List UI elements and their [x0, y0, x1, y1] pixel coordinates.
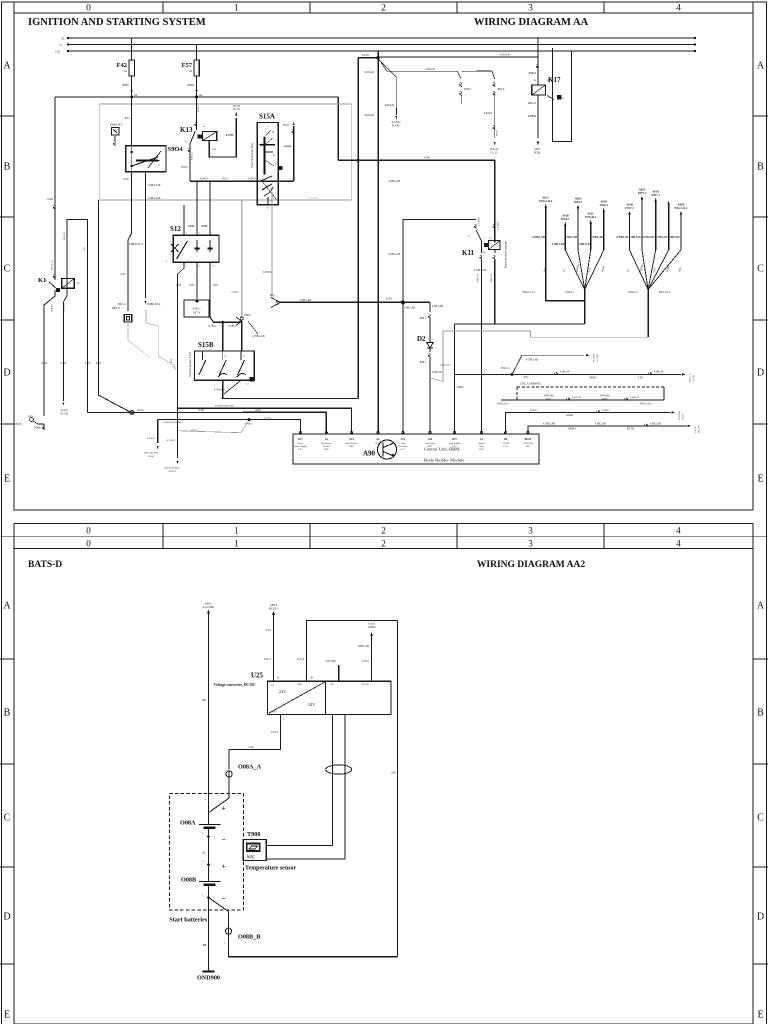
page2 arrow AA1E — [370, 632, 373, 636]
svg-text:3: 3 — [528, 539, 533, 549]
svg-text:3: 3 — [528, 4, 533, 14]
svg-text:0-DSESE0B GB03: 0-DSESE0B GB03 — [163, 421, 183, 424]
svg-text:6.0V: 6.0V — [120, 273, 126, 276]
svg-text:4.70B.LAB: 4.70B.LAB — [590, 236, 603, 239]
svg-text:D: D — [757, 368, 764, 379]
svg-text:4.70Gn0B: 4.70Gn0B — [214, 389, 225, 392]
svg-text:K17: K17 — [548, 76, 561, 84]
svg-text:6.0VO: 6.0VO — [200, 178, 208, 181]
svg-text:4.05A/R: 4.05A/R — [364, 114, 374, 117]
battery disconnect diagonal bottom — [208, 885, 210, 910]
wire S15B feeds — [222, 322, 224, 351]
svg-text:C: C — [4, 813, 11, 824]
relay K17 — [537, 38, 539, 85]
svg-text:4.70B.Li B: 4.70B.Li B — [578, 243, 590, 246]
svg-text:D: D — [757, 912, 764, 923]
svg-text:24V: 24V — [308, 702, 315, 707]
svg-text:A: A — [3, 601, 11, 612]
svg-text:S15B: S15B — [198, 341, 214, 349]
svg-text:X141.1: X141.1 — [192, 308, 201, 311]
svg-text:4.70GN: 4.70GN — [167, 439, 175, 442]
svg-text:L2/1: L2/1 — [401, 448, 406, 451]
svg-text:A-6Y: A-6Y — [198, 409, 204, 412]
wire B19 drop — [454, 324, 456, 434]
svg-text:D2: D2 — [417, 335, 426, 343]
svg-text:U25.3(P): U25.3(P) — [326, 660, 336, 663]
svg-text:K88.1.8: K88.1.8 — [496, 222, 499, 231]
svg-text:U25.1: U25.1 — [264, 658, 272, 661]
svg-text:DW7.1: DW7.1 — [638, 192, 647, 195]
svg-text:4.0B.LAB: 4.0B.LAB — [432, 305, 443, 308]
wire main feed y97 — [55, 96, 338, 98]
svg-text:4.0B.LiP: 4.0B.LiP — [572, 396, 582, 399]
fan prong — [642, 250, 648, 290]
svg-text:(C): (C) — [184, 140, 187, 143]
wire feed corner down x338 — [337, 97, 339, 160]
svg-text:0: 0 — [86, 539, 91, 549]
svg-text:4.70B.L4.B: 4.70B.L4.B — [474, 269, 486, 272]
wire thin bus branch right — [378, 56, 538, 58]
svg-text:A10: A10 — [349, 438, 354, 441]
S15B pin square — [250, 378, 254, 381]
svg-text:SN.SS: SN.SS — [682, 413, 685, 420]
svg-text:Voltage converter, DC/DC: Voltage converter, DC/DC — [214, 683, 256, 687]
wire gray link r82 — [128, 322, 150, 358]
svg-text:6.0V: 6.0V — [123, 178, 129, 181]
svg-text:K18.1.5: K18.1.5 — [191, 151, 194, 160]
K17 loop wire — [553, 48, 572, 142]
ground GND900 — [203, 971, 215, 973]
svg-text:A29: A29 — [428, 438, 433, 441]
S904 output wire right / EMER arrow — [144, 172, 146, 298]
fan prong — [585, 250, 604, 290]
page2 battery main wire upper — [208, 612, 210, 825]
svg-text:R82(1): R82(1) — [112, 307, 120, 310]
svg-text:4: 4 — [676, 4, 681, 14]
svg-text:DW6.1: DW6.1 — [561, 218, 570, 221]
fan arrow A61D — [577, 207, 579, 250]
svg-text:X15D: X15D — [233, 105, 240, 108]
svg-text:24V: 24V — [279, 689, 286, 694]
svg-text:A5 5D: A5 5D — [692, 375, 695, 382]
connector O08B_B — [225, 928, 231, 934]
wire NFR01 link — [179, 421, 249, 433]
wire x98 diagonal to junction — [97, 200, 99, 395]
svg-text:O08B_B: O08B_B — [238, 934, 260, 941]
fan prong — [648, 250, 656, 290]
svg-text:4.0B.LAB: 4.0B.LAB — [388, 180, 400, 183]
svg-text:4.05A/R: 4.05A/R — [384, 104, 394, 107]
svg-text:4.70B.LiW: 4.70B.LiW — [642, 236, 655, 239]
svg-text:R88.1: R88.1 — [420, 361, 427, 364]
svg-text:P5C: P5C — [524, 376, 529, 379]
wire row y419 to pin B17 — [158, 420, 301, 434]
svg-text:4.0B.LiP: 4.0B.LiP — [630, 396, 640, 399]
switch S904 — [126, 146, 166, 172]
wire U25 pin B loop — [307, 620, 398, 681]
fan prong — [648, 250, 669, 290]
wire gray link emer — [146, 310, 176, 370]
svg-text:X: X — [267, 207, 269, 210]
svg-text:U25.5: U25.5 — [362, 660, 370, 663]
svg-text:X88.5: X88.5 — [244, 314, 251, 317]
wire K11 feed from row160 — [494, 160, 496, 242]
wire light link D2-fan2 — [430, 331, 648, 382]
svg-text:4.0B.LiN: 4.0B.LiN — [440, 364, 450, 367]
svg-text:R8Mk: R8Mk — [284, 145, 291, 148]
wire row y408 to pin A10 — [178, 274, 352, 434]
svg-text:U25.2: U25.2 — [271, 731, 279, 734]
svg-text:ENG1.2: ENG1.2 — [629, 291, 639, 294]
svg-text:6.70W: 6.70W — [528, 115, 536, 118]
junction fan B14 — [271, 298, 280, 308]
svg-text:6.0W: 6.0W — [61, 362, 67, 365]
svg-text:GE7.4: GE7.4 — [193, 312, 201, 315]
junction X143 — [401, 300, 405, 304]
svg-text:K13: K13 — [180, 126, 193, 134]
svg-text:60VQ: 60VQ — [181, 166, 187, 169]
svg-text:4.0B.LiP: 4.0B.LiP — [560, 371, 570, 374]
svg-text:S9O4: S9O4 — [168, 146, 184, 153]
K13 switch blade — [190, 131, 195, 144]
wire page2 right drop — [397, 620, 399, 956]
svg-text:6.0Y: 6.0Y — [176, 284, 181, 287]
svg-text:HD1: HD1 — [479, 448, 484, 451]
svg-text:4.70B.LAB: 4.70B.LAB — [552, 243, 565, 246]
svg-text:B 89.1: B 89.1 — [197, 105, 200, 112]
svg-text:A90: A90 — [363, 450, 376, 458]
fan arrow A61B — [680, 213, 682, 250]
wire X143 row — [280, 301, 430, 303]
svg-text:FD68: FD68 — [34, 427, 41, 430]
wire loop x67 x87 — [67, 220, 87, 393]
wire drop arrow XD93 — [177, 408, 179, 458]
svg-text:F57: F57 — [182, 62, 193, 69]
wire gray feeder B14 — [271, 192, 273, 298]
svg-text:4.70B.LiW: 4.70B.LiW — [655, 236, 668, 239]
svg-text:1.6B: 1.6B — [390, 772, 395, 775]
svg-text:4.0B.LiOR: 4.0B.LiOR — [148, 197, 161, 200]
wire X143 riser — [403, 219, 476, 221]
S15B output wire — [222, 380, 224, 398]
svg-text:6.70VG: 6.70VG — [263, 271, 272, 274]
svg-text:4-0R: 4-0R — [424, 157, 430, 160]
svg-text:WIRING DIAGRAM AA: WIRING DIAGRAM AA — [474, 17, 589, 28]
fan prong — [565, 250, 584, 290]
svg-text:B: B — [4, 708, 11, 719]
svg-text:BL.SK: BL.SK — [362, 683, 369, 686]
svg-text:DW7.2: DW7.2 — [625, 207, 634, 210]
ECU A90 box — [293, 434, 539, 464]
svg-text:A: A — [757, 61, 765, 72]
svg-text:9.0VO: 9.0VO — [248, 178, 256, 181]
wire battery to ground — [208, 910, 210, 972]
K11 output wires — [481, 241, 483, 253]
svg-text:-MB: -MB — [297, 683, 302, 686]
svg-text:EMER.SE.3: EMER.SE.3 — [129, 243, 143, 246]
svg-text:IK1/E: IK1/E — [375, 442, 381, 445]
svg-text:R8Gu5: R8Gu5 — [528, 102, 537, 105]
svg-text:4: 4 — [676, 526, 681, 536]
wire bold row y181 left segment — [190, 180, 244, 182]
wire X14.9 vertical — [377, 51, 379, 434]
svg-text:2C1D: 2C1D — [233, 108, 240, 111]
svg-text:15A: 15A — [55, 50, 60, 53]
svg-text:X143: X143 — [386, 298, 393, 301]
fuse F57 — [196, 45, 198, 61]
svg-text:A: A — [757, 601, 765, 612]
fan arrow A61P — [641, 198, 643, 250]
svg-text:F42: F42 — [117, 62, 127, 69]
wire CNG inner row — [501, 399, 664, 401]
svg-text:Switch Starter Key: Switch Starter Key — [250, 142, 254, 168]
svg-text:K11: K11 — [462, 249, 475, 257]
svg-text:D: D — [3, 912, 10, 923]
svg-text:4.70B.LAB: 4.70B.LAB — [543, 422, 555, 425]
page1 top number strip — [13, 2, 15, 13]
svg-text:HD1: HD1 — [526, 445, 531, 448]
svg-text:1: 1 — [234, 4, 239, 14]
svg-text:3: 3 — [528, 526, 533, 536]
svg-text:R: R — [273, 131, 275, 134]
S15B blades — [201, 351, 203, 358]
fan2 node drop — [647, 290, 649, 338]
S15A internal bar — [264, 137, 266, 175]
svg-text:4.0B.LAB: 4.0B.LAB — [595, 422, 606, 425]
svg-text:U25.4: U25.4 — [297, 658, 305, 661]
wire S15B bottom row to x358 — [222, 398, 359, 400]
svg-text:3B: 3B — [270, 200, 273, 203]
svg-text:SE2B: SE2B — [534, 152, 541, 155]
svg-text:R887: R887 — [122, 83, 129, 87]
wire x87 to junction — [86, 393, 88, 413]
fan prong — [585, 250, 591, 290]
connector B83.9 chain — [461, 70, 492, 72]
ferrite ellipse — [326, 765, 352, 774]
svg-text:4-0B.L: 4-0B.L — [457, 386, 465, 389]
page2 arrow AB1C — [207, 610, 210, 614]
svg-text:X90B.1: X90B.1 — [568, 427, 577, 430]
svg-text:ZC7.B: ZC7.B — [60, 413, 68, 416]
wire branch to arrow A1/F4U — [381, 62, 396, 108]
svg-text:4.8A/R: 4.8A/R — [484, 112, 492, 115]
svg-text:FD8.5: FD8.5 — [464, 88, 472, 91]
svg-text:4.0B.LAB: 4.0B.LAB — [388, 253, 400, 256]
svg-text:ENG1.1: ENG1.1 — [566, 291, 576, 294]
svg-text:1-8A: 1-8A — [248, 746, 254, 749]
svg-text:1: 1 — [234, 526, 239, 536]
svg-text:Temperature sensor: Temperature sensor — [245, 866, 296, 872]
svg-text:BCC19: BCC19 — [698, 425, 701, 433]
wire SCONT arrow — [512, 355, 584, 374]
fan arrow A61.C — [545, 206, 547, 297]
wire junction stub — [236, 317, 242, 325]
svg-text:ENG1.A13: ENG1.A13 — [497, 403, 509, 406]
wire bold row y160 — [338, 159, 494, 161]
svg-text:DW6.1: DW6.1 — [600, 204, 609, 207]
svg-text:2: 2 — [381, 4, 386, 14]
connector FD8.5 — [459, 83, 461, 87]
page1 outer margin lines — [2, 1, 767, 3]
page1 bottom number strip — [14, 523, 753, 525]
svg-text:-OUT: -OUT — [271, 711, 277, 714]
K17 output wire — [537, 95, 539, 138]
svg-text:2: 2 — [381, 526, 386, 536]
svg-text:C: C — [4, 264, 11, 275]
wire A7a riser lower — [402, 302, 404, 433]
wire drop arrow 2961 — [157, 420, 159, 443]
svg-text:4.70B.LiW: 4.70B.LiW — [667, 236, 680, 239]
svg-text:4: 4 — [676, 539, 681, 549]
svg-text:A5 5D3: A5 5D3 — [596, 353, 599, 362]
svg-text:ENG1.21.2: ENG1.21.2 — [522, 291, 535, 294]
wire to connector R82 — [128, 233, 132, 311]
wire U25.3 stub — [338, 665, 340, 681]
svg-text:A122.SB1: A122.SB1 — [202, 605, 215, 609]
page1 inner frame — [14, 13, 753, 510]
svg-text:6.70Vo: 6.70Vo — [229, 325, 237, 328]
svg-text:ENG1.A1.1: ENG1.A1.1 — [640, 403, 653, 406]
fan prong — [578, 250, 585, 290]
S904 input wire from F42 — [131, 97, 133, 146]
svg-text:B6.SE: B6.SE — [525, 438, 532, 441]
svg-text:BF68: BF68 — [602, 398, 608, 401]
svg-text:9.0W: 9.0W — [188, 225, 194, 228]
svg-text:BC70L: BC70L — [627, 427, 635, 430]
wire bold row y412 to pin A2 — [87, 412, 326, 434]
svg-text:R8Bu3: R8Bu3 — [529, 72, 537, 75]
svg-text:BATS-D: BATS-D — [28, 560, 62, 570]
svg-text:E: E — [4, 1010, 10, 1021]
arrow up X15D — [235, 112, 237, 116]
fan arrow A61B — [564, 224, 566, 250]
svg-text:R9/36: R9/36 — [496, 129, 499, 136]
svg-text:O08A_A: O08A_A — [238, 763, 262, 770]
wire D2 branch — [429, 302, 431, 312]
svg-text:4.7Gn: 4.7Gn — [530, 409, 537, 412]
svg-text:L2G: L2G — [298, 448, 303, 451]
svg-text:X14.0: X14.0 — [137, 409, 144, 412]
svg-text:A: A — [3, 61, 11, 72]
svg-text:E: E — [4, 474, 10, 485]
svg-text:E: E — [757, 474, 763, 485]
svg-text:(7): (7) — [489, 237, 492, 240]
wire U25 pin A riser — [273, 613, 275, 681]
svg-text:T900: T900 — [247, 831, 260, 838]
svg-text:9.0NG: 9.0NG — [231, 291, 238, 294]
wire A90 B6 row — [506, 412, 671, 433]
svg-text:ENG1.42.2: ENG1.42.2 — [674, 207, 688, 210]
wire ENG row y374 — [455, 373, 682, 375]
svg-text:Switch Starter Fwd: Switch Starter Fwd — [188, 352, 192, 377]
svg-text:AGM1: AGM1 — [566, 414, 574, 417]
svg-text:B15: B15 — [125, 117, 130, 120]
svg-text:EMER.SE.7: EMER.SE.7 — [110, 124, 124, 127]
sensor wires — [266, 845, 332, 847]
svg-text:2.0A: 2.0A — [265, 629, 271, 632]
A90 pin labels — [299, 431, 301, 433]
wire gray NG vertical — [241, 200, 243, 318]
svg-text:4.70B.LAB: 4.70B.LAB — [564, 236, 577, 239]
fan1 node drop — [584, 290, 586, 325]
svg-text:AB0C: AB0C — [148, 455, 155, 458]
svg-text:RK8.42: RK8.42 — [490, 273, 493, 282]
svg-text:4.0B.LiOR: 4.0B.LiOR — [148, 184, 161, 187]
K17 switch contact — [547, 96, 554, 100]
svg-text:HD1: HD1 — [324, 448, 329, 451]
S15A lower blades — [261, 179, 277, 199]
svg-text:L2-G: L2-G — [503, 445, 508, 448]
svg-text:0: 0 — [86, 4, 91, 14]
svg-text:9.0W: 9.0W — [201, 225, 207, 228]
svg-text:B82.11: B82.11 — [118, 303, 127, 306]
svg-text:B103: B103 — [16, 423, 23, 426]
wire bold row y324 — [455, 323, 585, 325]
svg-text:B.VPC: B.VPC — [392, 125, 400, 128]
svg-text:R884: R884 — [187, 83, 194, 87]
svg-text:36h: 36h — [202, 698, 207, 702]
svg-text:1: 1 — [234, 539, 239, 549]
svg-text:B14: B14 — [270, 294, 275, 297]
K13 input from F57 — [196, 97, 198, 130]
svg-text:CL.1C: CL.1C — [490, 152, 498, 155]
svg-text:E: E — [757, 1010, 763, 1021]
svg-text:4.05A/R: 4.05A/R — [364, 71, 374, 74]
svg-text:L2G: L2G — [452, 445, 457, 448]
fan arrow A61C — [590, 222, 592, 250]
svg-text:NTC: NTC — [247, 856, 255, 860]
svg-text:B81.4.1.4: B81.4.1.4 — [51, 259, 54, 270]
svg-text:IGNITION AND STARTING SYSTEM: IGNITION AND STARTING SYSTEM — [28, 17, 206, 28]
svg-text:D: D — [3, 368, 10, 379]
svg-text:4.05A/R: 4.05A/R — [425, 68, 435, 71]
battery disconnect diagonal top — [228, 793, 230, 798]
svg-text:ENG46.1: ENG46.1 — [585, 216, 597, 219]
wire left drop x55 — [54, 97, 56, 280]
fan1 left drop — [546, 297, 585, 301]
svg-text:0: 0 — [86, 526, 91, 536]
svg-text:NFR01: NFR01 — [190, 430, 199, 433]
svg-text:OND900: OND900 — [197, 975, 220, 982]
svg-text:4.70B.LiW: 4.70B.LiW — [616, 236, 629, 239]
svg-text:B19: B19 — [452, 438, 457, 441]
fan arrow — [668, 203, 670, 250]
fan prong — [648, 250, 681, 290]
fan arrow A61D — [655, 200, 657, 250]
svg-text:WIRING DIAGRAM AA2: WIRING DIAGRAM AA2 — [477, 560, 585, 570]
svg-text:−: − — [222, 894, 226, 903]
S904 internals — [131, 146, 133, 172]
svg-text:B81.4.8: B81.4.8 — [63, 231, 66, 240]
svg-text:4.0B.LiP: 4.0B.LiP — [654, 371, 664, 374]
A90 circle symbol — [378, 440, 397, 459]
svg-text:X14.9: X14.9 — [362, 54, 370, 57]
S15A contacts — [265, 130, 271, 137]
svg-text:4.0B.LAB: 4.0B.LAB — [650, 422, 661, 425]
connector R82 square — [124, 315, 131, 322]
svg-text:X90B.1: X90B.1 — [589, 376, 598, 379]
svg-text:6.0Y: 6.0Y — [213, 284, 218, 287]
fuse F42 — [131, 38, 133, 60]
svg-text:B: B — [757, 708, 764, 719]
svg-text:B17: B17 — [298, 438, 303, 441]
svg-text:+: + — [222, 804, 226, 813]
svg-text:O08B: O08B — [181, 877, 196, 884]
grouping outline box — [99, 104, 351, 200]
battery link wire — [208, 828, 210, 882]
power bus lines 30/15/15A — [68, 37, 695, 39]
svg-text:ENG.A1.2: ENG.A1.2 — [659, 291, 671, 294]
